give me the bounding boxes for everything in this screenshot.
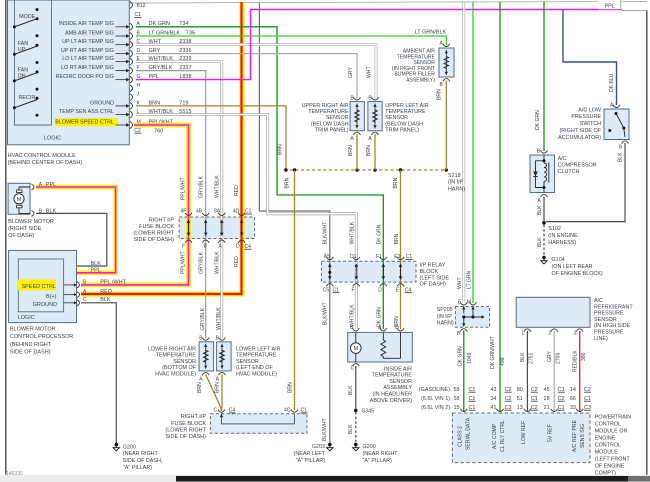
svg-text:AMB AIR TEMP SIG: AMB AIR TEMP SIG [65, 30, 114, 36]
svg-text:BLOWER MOTOR: BLOWER MOTOR [8, 219, 54, 225]
svg-text:RED: RED [234, 256, 240, 267]
svg-text:PPL /WHT: PPL /WHT [100, 279, 126, 285]
svg-text:DK GRN: DK GRN [377, 224, 383, 244]
svg-text:LO LT AIR TEMP SIG: LO LT AIR TEMP SIG [62, 56, 114, 62]
svg-text:A/C LOW: A/C LOW [578, 107, 602, 113]
svg-text:G200: G200 [363, 444, 376, 450]
svg-text:HARN): HARN) [448, 186, 465, 192]
svg-text:WHT/BLK: WHT/BLK [214, 175, 220, 198]
svg-text:(NEAR LEFT: (NEAR LEFT [294, 451, 326, 457]
svg-text:(NEAR RIGHT: (NEAR RIGHT [363, 451, 399, 457]
svg-text:DK GRN: DK GRN [535, 110, 541, 130]
svg-text:INSIDE AIR: INSIDE AIR [384, 366, 412, 372]
svg-text:RIGHT I/P: RIGHT I/P [149, 218, 175, 224]
svg-text:LT GRN: LT GRN [466, 270, 472, 289]
svg-text:SENSOR: SENSOR [236, 359, 259, 365]
svg-text:OF DASH): OF DASH) [8, 233, 34, 239]
svg-text:DK BLU: DK BLU [609, 73, 615, 92]
svg-text:TEMPERATURE: TEMPERATURE [385, 109, 426, 115]
svg-text:COMPT): COMPT) [595, 470, 616, 476]
svg-text:B(+): B(+) [46, 294, 57, 300]
svg-text:HARN): HARN) [437, 321, 454, 327]
svg-text:MODULE OR: MODULE OR [595, 428, 628, 434]
svg-text:SENSOR: SENSOR [389, 379, 412, 385]
svg-text:SIDE OF DASH): SIDE OF DASH) [10, 349, 51, 355]
svg-text:G104: G104 [552, 257, 565, 263]
svg-text:(IN I/P: (IN I/P [437, 314, 453, 320]
svg-text:A5: A5 [324, 254, 330, 260]
svg-text:UPPER RIGHT AIR: UPPER RIGHT AIR [302, 103, 349, 109]
svg-text:BRN: BRN [288, 382, 294, 393]
svg-text:SERIAL DATA: SERIAL DATA [465, 417, 471, 450]
svg-text:UP LT AIR TEMP SIG: UP LT AIR TEMP SIG [62, 39, 114, 45]
svg-text:8A: 8A [214, 209, 221, 215]
svg-text:1049: 1049 [467, 353, 473, 364]
svg-text:WHT: WHT [367, 66, 373, 78]
svg-text:S345: S345 [362, 409, 375, 415]
svg-text:15: 15 [454, 405, 460, 411]
svg-text:TEMPERATURE: TEMPERATURE [236, 353, 277, 359]
svg-text:CL RLY CTRL: CL RLY CTRL [500, 420, 506, 452]
svg-text:INSIDE AIR TEMP SIG: INSIDE AIR TEMP SIG [59, 21, 114, 27]
svg-text:A/C REF PRE: A/C REF PRE [572, 419, 578, 452]
svg-text:ENGINE: ENGINE [595, 435, 616, 441]
svg-text:TRIM PANEL): TRIM PANEL) [315, 128, 349, 134]
svg-text:UP RT AIR TEMP SIG: UP RT AIR TEMP SIG [61, 48, 114, 54]
svg-text:RECIR: RECIR [19, 95, 36, 101]
svg-text:PPL/WHT: PPL/WHT [180, 251, 186, 274]
svg-text:WHT/BLK: WHT/BLK [349, 304, 355, 327]
svg-text:BRN: BRN [393, 177, 399, 188]
svg-text:GRY: GRY [348, 66, 354, 78]
svg-text:(BEHIND RIGHT: (BEHIND RIGHT [10, 342, 52, 348]
svg-text:ASSEMBLY: ASSEMBLY [383, 385, 412, 391]
svg-text:SP205: SP205 [437, 307, 453, 313]
svg-text:SENSOR: SENSOR [385, 115, 408, 121]
svg-text:S218: S218 [448, 173, 461, 179]
svg-text:M: M [17, 197, 22, 203]
svg-text:TEMPERATURE: TEMPERATURE [156, 353, 197, 359]
svg-text:MODE: MODE [19, 14, 36, 20]
svg-text:58: 58 [454, 387, 460, 393]
svg-text:(ON LEFT REAR: (ON LEFT REAR [552, 264, 593, 270]
svg-text:S102: S102 [548, 226, 561, 232]
svg-text:WHT/BLK: WHT/BLK [214, 251, 220, 274]
svg-text:BLK: BLK [537, 205, 543, 215]
svg-text:(BOTTOM OF: (BOTTOM OF [162, 365, 196, 371]
svg-text:BLK: BLK [537, 237, 543, 247]
svg-text:SIDE OF DASH,: SIDE OF DASH, [123, 458, 163, 464]
svg-text:"A" PILLAR): "A" PILLAR) [123, 465, 152, 471]
svg-text:PPL/WHT: PPL/WHT [180, 177, 186, 200]
svg-text:F1: F1 [376, 254, 382, 260]
svg-text:(BELOW DASH: (BELOW DASH [311, 121, 349, 127]
svg-text:4D: 4D [233, 209, 240, 215]
svg-text:GRY/BLK: GRY/BLK [200, 307, 206, 330]
svg-text:3: 3 [574, 330, 577, 336]
svg-text:45: 45 [544, 387, 550, 393]
svg-text:34: 34 [491, 396, 497, 402]
svg-text:1: 1 [521, 330, 524, 336]
svg-text:TEMPERATURE: TEMPERATURE [308, 109, 349, 115]
svg-text:DK GRN: DK GRN [458, 346, 464, 366]
svg-text:(IN I/P: (IN I/P [448, 180, 464, 186]
svg-text:BLK/WHT: BLK/WHT [323, 302, 329, 325]
svg-text:WHT/BLK: WHT/BLK [216, 307, 222, 330]
svg-text:(GASOLINE): (GASOLINE) [419, 387, 450, 393]
svg-text:(RIGHT SIDE OF: (RIGHT SIDE OF [559, 128, 601, 134]
svg-text:SIDE OF DASH): SIDE OF DASH) [133, 237, 174, 243]
svg-text:ABOVE DRIVER): ABOVE DRIVER) [370, 398, 412, 404]
svg-text:4B: 4B [196, 209, 203, 215]
svg-text:13: 13 [517, 405, 523, 411]
svg-text:BLOWER SPEED CTRL: BLOWER SPEED CTRL [55, 119, 114, 125]
svg-text:FUSE BLOCK: FUSE BLOCK [171, 421, 206, 427]
svg-text:RED/BLK: RED/BLK [573, 350, 579, 372]
svg-text:A/C: A/C [558, 156, 567, 162]
svg-text:(BEHIND CENTER OF DASH): (BEHIND CENTER OF DASH) [8, 160, 83, 166]
svg-text:GROUND: GROUND [90, 100, 114, 106]
svg-text:51: 51 [517, 396, 523, 402]
svg-text:BLK/WHT: BLK/WHT [323, 222, 329, 245]
svg-text:SWITCH: SWITCH [580, 121, 601, 127]
svg-text:RED: RED [234, 185, 240, 196]
svg-text:BRN: BRN [215, 382, 221, 393]
svg-text:66: 66 [570, 396, 576, 402]
svg-text:BLOWER MOTOR: BLOWER MOTOR [10, 327, 56, 333]
svg-text:4F: 4F [181, 209, 187, 215]
svg-text:LINE): LINE) [594, 336, 608, 342]
svg-text:F: F [182, 243, 185, 249]
svg-text:RED: RED [100, 289, 112, 295]
svg-text:(RIGHT SIDE: (RIGHT SIDE [8, 226, 42, 232]
svg-text:ASSEMBLY): ASSEMBLY) [406, 78, 435, 84]
svg-text:A/C: A/C [594, 298, 603, 304]
svg-text:LOWER RIGHT AIR: LOWER RIGHT AIR [148, 346, 196, 352]
svg-text:RIGHT I/P: RIGHT I/P [181, 414, 207, 420]
svg-text:HVAC CONTROL MODULE: HVAC CONTROL MODULE [8, 153, 76, 159]
svg-text:RECIRC DOOR PO SIG: RECIRC DOOR PO SIG [56, 74, 114, 80]
svg-text:GRY: GRY [547, 350, 553, 362]
svg-text:WHT/BLK: WHT/BLK [349, 221, 355, 244]
svg-text:28: 28 [544, 396, 550, 402]
svg-text:"A" PILLAR): "A" PILLAR) [296, 458, 325, 464]
svg-text:BRN: BRN [278, 144, 284, 155]
svg-text:LT GRN/BLK: LT GRN/BLK [415, 29, 447, 35]
svg-text:BLK: BLK [618, 152, 624, 162]
svg-text:(6.6L VIN 1): (6.6L VIN 1) [421, 396, 450, 402]
svg-text:41: 41 [491, 405, 497, 411]
svg-text:LOW REF: LOW REF [521, 421, 527, 444]
svg-text:TEMP SEN ASS CTRL: TEMP SEN ASS CTRL [59, 109, 114, 115]
svg-text:CONTROL: CONTROL [595, 421, 621, 427]
svg-text:380: 380 [581, 352, 587, 361]
svg-text:SIDE OF DASH): SIDE OF DASH) [165, 434, 206, 440]
svg-text:2: 2 [548, 330, 551, 336]
svg-text:760: 760 [154, 128, 163, 134]
svg-text:BLK: BLK [46, 209, 57, 215]
svg-text:C: C [214, 408, 218, 414]
svg-text:BRN: BRN [437, 89, 443, 100]
svg-text:43: 43 [491, 387, 497, 393]
svg-text:BLK: BLK [348, 385, 354, 395]
svg-text:499: 499 [500, 357, 506, 366]
svg-text:B12: B12 [137, 3, 146, 9]
svg-text:WHT: WHT [457, 277, 463, 289]
svg-text:BRN: BRN [285, 177, 291, 188]
svg-text:HVAC MODULE): HVAC MODULE) [155, 372, 196, 378]
svg-text:CONTROL: CONTROL [595, 442, 621, 448]
svg-text:LOGIC: LOGIC [44, 135, 61, 141]
svg-text:33: 33 [570, 405, 576, 411]
svg-text:BRN: BRN [366, 145, 372, 156]
svg-text:SENS SIG: SENS SIG [580, 424, 586, 448]
svg-text:14: 14 [570, 387, 576, 393]
svg-text:TEMPERATURE: TEMPERATURE [372, 373, 413, 379]
svg-text:SENSOR: SENSOR [594, 317, 617, 323]
svg-text:UPPER LEFT AIR: UPPER LEFT AIR [385, 103, 428, 109]
svg-text:BLK: BLK [91, 261, 102, 267]
svg-text:(IN ENGINE: (IN ENGINE [548, 233, 578, 239]
svg-text:PRESSURE: PRESSURE [571, 114, 601, 120]
svg-text:PPL: PPL [605, 3, 615, 9]
svg-text:G200: G200 [123, 444, 136, 450]
svg-text:LOGIC: LOGIC [18, 315, 35, 321]
svg-text:BLOCK: BLOCK [420, 269, 439, 275]
svg-text:(6.6L VIN 2): (6.6L VIN 2) [421, 405, 450, 411]
svg-text:(LEFT SIDE: (LEFT SIDE [420, 275, 450, 281]
svg-text:(BELOW DASH: (BELOW DASH [385, 121, 423, 127]
svg-text:SENSOR: SENSOR [326, 115, 349, 121]
svg-text:PRESSURE: PRESSURE [594, 311, 624, 317]
svg-text:F: F [352, 287, 355, 293]
svg-text:OF ENGINE BLOCK): OF ENGINE BLOCK) [552, 271, 603, 277]
svg-text:CLUTCH: CLUTCH [558, 169, 580, 175]
svg-text:LOWER LEFT AIR: LOWER LEFT AIR [236, 346, 281, 352]
svg-text:CLASS 2: CLASS 2 [458, 426, 464, 447]
svg-text:HARNESS): HARNESS) [548, 240, 576, 246]
svg-text:LO RT AIR TEMP SIG: LO RT AIR TEMP SIG [61, 65, 114, 71]
svg-text:PPL: PPL [46, 182, 56, 188]
svg-text:2700: 2700 [555, 353, 561, 364]
svg-text:REFRIGERANT: REFRIGERANT [594, 304, 633, 310]
svg-text:(IN HEADLINER: (IN HEADLINER [372, 392, 412, 398]
svg-text:E1: E1 [394, 254, 400, 260]
svg-text:I/P RELAY: I/P RELAY [420, 263, 446, 269]
svg-text:(LEFT END OF: (LEFT END OF [236, 365, 273, 371]
svg-text:H: H [137, 83, 141, 89]
svg-text:"A" PILLAR): "A" PILLAR) [363, 458, 392, 464]
svg-text:FUSE BLOCK: FUSE BLOCK [139, 224, 174, 230]
svg-text:58: 58 [454, 396, 460, 402]
svg-text:C: C [83, 297, 87, 303]
svg-text:(LOWER RIGHT: (LOWER RIGHT [165, 428, 206, 434]
svg-text:BLK: BLK [520, 352, 526, 362]
svg-text:D: D [378, 287, 382, 293]
svg-text:DK GRN/WHT: DK GRN/WHT [490, 336, 496, 369]
svg-text:BLK/WHT: BLK/WHT [322, 418, 328, 441]
svg-text:DN: DN [18, 73, 26, 79]
svg-text:21: 21 [544, 405, 550, 411]
svg-text:2751: 2751 [528, 353, 534, 364]
svg-text:POWERTRAIN: POWERTRAIN [595, 414, 632, 420]
svg-text:M: M [353, 346, 358, 352]
svg-text:(LOWER RIGHT: (LOWER RIGHT [133, 231, 174, 237]
svg-text:(NEAR RIGHT: (NEAR RIGHT [123, 451, 159, 457]
svg-text:BLK: BLK [100, 297, 111, 303]
svg-text:UP: UP [18, 47, 26, 53]
svg-text:D1: D1 [350, 254, 357, 260]
svg-text:GRY/BLK: GRY/BLK [199, 251, 205, 274]
svg-text:M: M [467, 299, 471, 305]
svg-text:4C: 4C [284, 408, 291, 414]
svg-text:GRY/BLK: GRY/BLK [199, 175, 205, 198]
svg-text:ACCUMULATOR): ACCUMULATOR) [558, 135, 601, 141]
svg-text:D: D [395, 325, 399, 331]
svg-text:SPEED CTRL: SPEED CTRL [21, 284, 56, 290]
svg-text:D: D [236, 243, 240, 249]
svg-text:COMPRESSOR: COMPRESSOR [558, 162, 597, 168]
svg-text:MODULE: MODULE [595, 449, 618, 455]
svg-text:BLK: BLK [348, 424, 354, 434]
svg-text:146330: 146330 [6, 471, 23, 477]
svg-text:C: C [351, 366, 355, 372]
svg-text:BRN: BRN [197, 382, 203, 393]
svg-text:5V REF: 5V REF [548, 424, 554, 442]
svg-text:OF DASH): OF DASH) [420, 282, 446, 288]
svg-text:(IN HIGH SIDE: (IN HIGH SIDE [594, 323, 631, 329]
svg-text:TRIM PANEL): TRIM PANEL) [385, 128, 419, 134]
svg-text:G203: G203 [312, 444, 325, 450]
svg-text:(LEFT FRONT: (LEFT FRONT [595, 456, 631, 462]
svg-text:GROUND: GROUND [33, 302, 57, 308]
svg-text:BRN: BRN [348, 145, 354, 156]
svg-text:80: 80 [517, 387, 523, 393]
svg-text:CONTROL PROCESSOR: CONTROL PROCESSOR [10, 334, 73, 340]
svg-text:PPL: PPL [91, 268, 101, 274]
svg-text:BRN: BRN [394, 233, 400, 244]
svg-text:PRESSURE: PRESSURE [594, 330, 624, 336]
svg-text:HVAC MODULE): HVAC MODULE) [236, 372, 277, 378]
svg-text:OF ENGINE: OF ENGINE [595, 463, 625, 469]
svg-text:A/C COMP: A/C COMP [492, 423, 498, 449]
svg-text:SENSOR: SENSOR [173, 359, 196, 365]
svg-text:C5: C5 [323, 287, 330, 293]
